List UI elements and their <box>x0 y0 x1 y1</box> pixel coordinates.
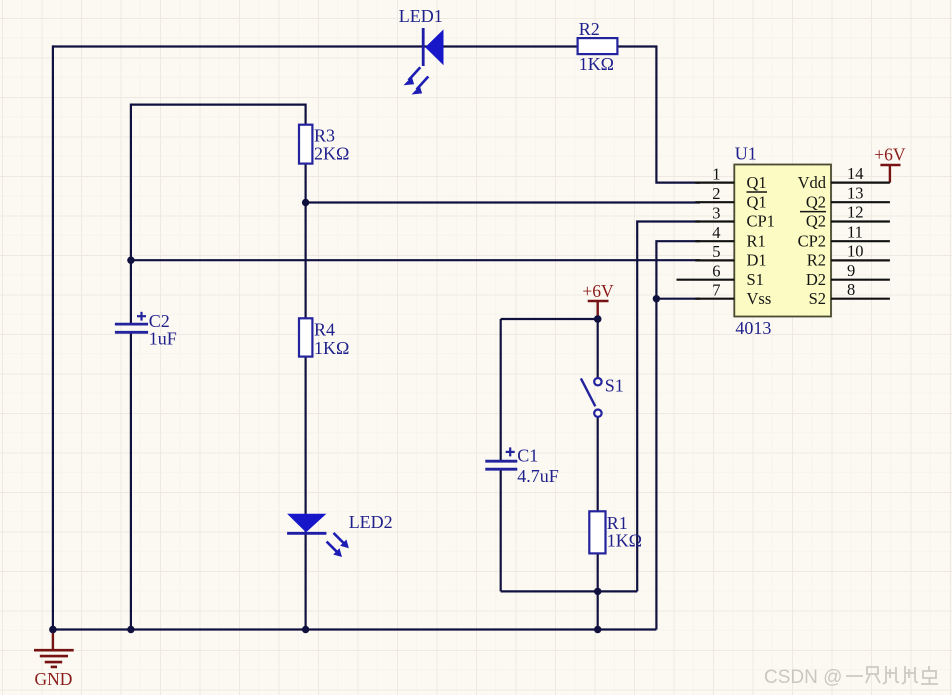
resistor R2 <box>578 38 618 54</box>
svg-text:14: 14 <box>847 164 864 183</box>
resistor R3 <box>299 125 312 164</box>
pin 14 <box>798 164 890 192</box>
node R1 bottom junction <box>594 626 601 633</box>
wire pin2 <box>306 201 700 203</box>
svg-text:R2: R2 <box>807 251 826 270</box>
svg-text:Q1: Q1 <box>747 192 767 211</box>
svg-text:2: 2 <box>712 184 720 203</box>
pin 13 <box>800 183 890 211</box>
node pin5 junction <box>127 257 134 264</box>
svg-text:Q2: Q2 <box>806 212 826 231</box>
+6V power IC <box>874 145 906 183</box>
LED1 <box>404 28 444 95</box>
resistor R4 <box>299 318 312 356</box>
wire LED2 branch <box>305 357 307 630</box>
svg-text:1KΩ: 1KΩ <box>314 338 349 358</box>
node +6V loop junction <box>594 315 601 322</box>
svg-text:9: 9 <box>847 261 855 280</box>
node C2 bottom junction <box>127 626 134 633</box>
svg-text:+6V: +6V <box>582 281 614 301</box>
svg-text:4: 4 <box>712 223 720 242</box>
svg-text:4.7uF: 4.7uF <box>517 466 559 486</box>
svg-text:S1: S1 <box>747 270 764 289</box>
svg-text:D2: D2 <box>806 270 826 289</box>
wire left rail <box>52 45 54 629</box>
node LED2 bottom junction <box>302 626 309 633</box>
wire pin7 stub <box>656 298 700 300</box>
capacitor C2 <box>115 312 148 333</box>
wire R3 branch <box>305 104 307 319</box>
node pin7 junction <box>653 295 660 302</box>
pin 11 <box>798 222 890 250</box>
svg-text:8: 8 <box>847 280 855 299</box>
wire S1 R1 branch <box>597 319 599 630</box>
node gnd junction <box>49 626 56 633</box>
svg-text:R4: R4 <box>314 320 335 340</box>
pin 12 <box>806 203 890 231</box>
svg-text:12: 12 <box>847 203 864 222</box>
svg-text:10: 10 <box>847 242 864 261</box>
svg-text:R3: R3 <box>314 126 335 146</box>
pin 4 <box>695 223 765 250</box>
ground <box>34 630 74 690</box>
node gnd junction top <box>49 626 56 633</box>
svg-text:1KΩ: 1KΩ <box>579 54 614 74</box>
pin 9 <box>806 261 890 289</box>
svg-text:R1: R1 <box>747 231 766 250</box>
node +6V junction top <box>594 315 601 322</box>
svg-text:Vdd: Vdd <box>798 173 827 192</box>
svg-text:LED2: LED2 <box>349 512 393 532</box>
wire C2 rail lower <box>130 332 132 629</box>
pin 5 <box>695 242 766 269</box>
svg-text:6: 6 <box>712 262 720 281</box>
svg-text:2KΩ: 2KΩ <box>314 144 349 164</box>
pin 1 <box>695 164 767 192</box>
node pin2 junction <box>302 199 309 206</box>
svg-text:CP1: CP1 <box>747 212 775 231</box>
svg-text:1: 1 <box>712 164 720 183</box>
svg-text:CSDN @: CSDN @ <box>764 667 842 688</box>
node loop bottom junction <box>594 588 601 595</box>
wire pin5 <box>131 259 700 261</box>
resistor R1 <box>589 511 605 553</box>
svg-text:GND: GND <box>35 669 73 689</box>
pin 6 <box>677 262 764 289</box>
wire C1 branch <box>500 319 502 591</box>
svg-text:CP2: CP2 <box>798 231 826 250</box>
wire top rail <box>53 45 578 47</box>
svg-text:3: 3 <box>712 203 720 222</box>
svg-text:U1: U1 <box>735 144 757 164</box>
switch S1 <box>581 378 602 417</box>
svg-text:D1: D1 <box>747 251 767 270</box>
watermark <box>764 666 938 688</box>
svg-text:4013: 4013 <box>735 318 771 338</box>
svg-text:C1: C1 <box>517 446 538 466</box>
svg-text:S2: S2 <box>809 289 826 308</box>
wire bottom rail <box>53 628 657 630</box>
svg-text:Q2: Q2 <box>806 192 826 211</box>
svg-text:1uF: 1uF <box>149 329 177 349</box>
svg-text:R2: R2 <box>579 19 600 39</box>
pin 10 <box>807 242 890 270</box>
svg-text:Q1: Q1 <box>747 173 767 192</box>
wire R2 to pin1 <box>617 47 700 183</box>
svg-text:11: 11 <box>847 222 863 241</box>
wire mid top <box>131 103 306 105</box>
svg-text:13: 13 <box>847 183 864 202</box>
svg-text:S1: S1 <box>605 376 624 396</box>
capacitor C1 <box>485 447 517 469</box>
wire C2 rail upper <box>130 104 132 325</box>
wire loop bottom <box>501 590 638 592</box>
pin 7 <box>695 281 771 308</box>
LED2 <box>287 514 349 557</box>
op IC U1 4013 <box>734 165 831 317</box>
svg-text:LED1: LED1 <box>399 6 443 26</box>
svg-text:1KΩ: 1KΩ <box>607 531 642 551</box>
svg-text:5: 5 <box>712 242 720 261</box>
pin 2 <box>695 184 766 211</box>
wire pin4 vertical <box>656 241 700 629</box>
wire pin3 vertical <box>637 222 700 592</box>
svg-text:+6V: +6V <box>874 145 906 165</box>
wire loop top <box>501 318 598 320</box>
pin 8 <box>809 280 890 308</box>
svg-text:Vss: Vss <box>747 289 772 308</box>
svg-text:7: 7 <box>712 281 720 300</box>
pin 3 <box>695 203 775 230</box>
+6V power S1 <box>582 281 614 319</box>
